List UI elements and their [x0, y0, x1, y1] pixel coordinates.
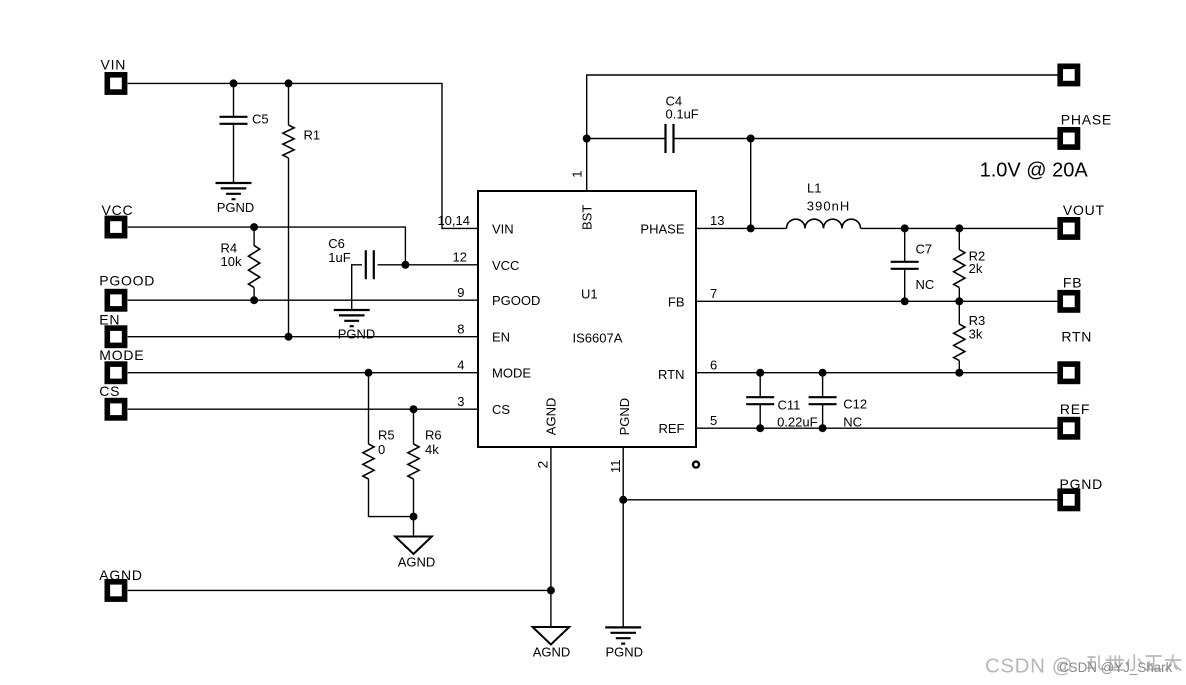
port CS: [99, 383, 124, 418]
svg-text:PGND: PGND: [338, 327, 376, 342]
junction VCC/R4: [250, 223, 258, 231]
junction REF/C11: [756, 424, 764, 432]
watermark CSDN small: [1059, 660, 1173, 675]
port PGOOD: [99, 273, 155, 309]
junction R1/EN: [285, 333, 293, 341]
svg-text:9: 9: [457, 285, 464, 300]
junction VOUT/R2: [955, 224, 963, 232]
junction RTN/C12: [819, 369, 827, 377]
resistor R6: [408, 409, 442, 536]
svg-text:L1: L1: [807, 180, 821, 195]
junction VIN/R1: [285, 79, 293, 87]
wire VIN net: [128, 83, 478, 228]
svg-text:REF: REF: [659, 421, 685, 436]
resistor R2: [954, 228, 986, 301]
svg-text:3: 3: [457, 394, 464, 409]
pin number 6: [710, 358, 717, 373]
svg-text:VIN: VIN: [492, 221, 514, 236]
svg-text:C6: C6: [328, 236, 345, 251]
wire FB net: [696, 300, 1057, 302]
svg-text:4: 4: [457, 358, 464, 373]
wire VCC net: [128, 227, 478, 265]
pin number 13: [710, 213, 724, 228]
port PHASE: [1060, 111, 1112, 147]
capacitor C5: [220, 83, 269, 183]
pin number 10,14: [437, 213, 470, 228]
svg-text:MODE: MODE: [99, 347, 144, 363]
svg-text:AGND: AGND: [544, 398, 559, 436]
svg-text:7: 7: [710, 286, 717, 301]
wire PHASE riser: [750, 139, 752, 229]
svg-text:PGND: PGND: [617, 398, 632, 436]
wire BST net: [587, 75, 1058, 191]
port MODE: [99, 347, 144, 381]
svg-text:PHASE: PHASE: [640, 221, 684, 236]
capacitor C11: [746, 373, 817, 430]
svg-text:R1: R1: [304, 128, 321, 143]
svg-text:AGND: AGND: [398, 555, 436, 570]
junction FB/R2/R3: [955, 297, 963, 305]
node marker o: [693, 462, 699, 468]
port REF: [1060, 401, 1090, 437]
svg-text:VCC: VCC: [102, 202, 134, 218]
svg-text:PHASE: PHASE: [1061, 111, 1112, 127]
capacitor C6: [328, 236, 405, 310]
wire PGOOD net: [128, 299, 478, 301]
resistor R1: [283, 83, 320, 336]
svg-text:C7: C7: [916, 242, 933, 257]
resistor R4: [221, 227, 260, 300]
svg-text:CS: CS: [492, 402, 510, 417]
pin number 2: [535, 461, 551, 469]
port VOUT: [1060, 202, 1105, 237]
svg-text:12: 12: [453, 250, 467, 265]
svg-text:390nH: 390nH: [807, 198, 851, 213]
svg-text:0: 0: [378, 442, 385, 457]
junction RTN/R3: [955, 369, 963, 377]
svg-text:IS6607A: IS6607A: [573, 331, 623, 346]
port PGND: [1060, 476, 1103, 509]
wire RTN net: [696, 372, 1057, 374]
ground PGND below pin 11: [605, 627, 643, 659]
pin number 12: [453, 250, 467, 265]
svg-text:VCC: VCC: [492, 258, 519, 273]
resistor R3: [954, 301, 986, 372]
resistor R5: [363, 373, 414, 517]
svg-text:11: 11: [608, 460, 623, 474]
svg-text:PGOOD: PGOOD: [99, 273, 155, 289]
inductor L1: [787, 180, 861, 228]
pin number 7: [710, 286, 717, 301]
wire VOUT net: [861, 227, 1058, 229]
ground PGND below C5: [216, 183, 255, 215]
svg-text:CS: CS: [99, 383, 120, 399]
port AGND: [99, 567, 142, 599]
capacitor C4: [587, 94, 699, 154]
svg-text:C5: C5: [252, 112, 269, 127]
svg-text:U1: U1: [581, 287, 598, 302]
svg-text:AGND: AGND: [533, 645, 571, 660]
junction PHASE/riser: [747, 224, 755, 232]
svg-text:RTN: RTN: [1061, 328, 1092, 344]
wire REF net: [696, 427, 1057, 429]
wire C4 to PHASE port: [674, 138, 1058, 140]
pin number 1: [570, 171, 585, 178]
junction RTN/C11: [756, 369, 764, 377]
ground PGND below C6: [334, 310, 376, 342]
junction CS/R6: [410, 405, 418, 413]
pin number 8: [457, 322, 464, 337]
wire pin 11 PGND: [622, 447, 624, 627]
wire pin 2 AGND: [550, 447, 552, 627]
wire CS net: [128, 408, 478, 410]
svg-text:EN: EN: [99, 312, 120, 328]
watermark CSDN large: [985, 655, 1181, 678]
junction pin 11/PGND net: [619, 496, 627, 504]
svg-text:8: 8: [457, 322, 464, 337]
svg-text:FB: FB: [1063, 274, 1082, 290]
junction R4/PGOOD: [250, 296, 258, 304]
junction R5/R6: [410, 513, 418, 521]
junction MODE/R5: [365, 369, 373, 377]
svg-text:2: 2: [535, 461, 551, 469]
svg-text:3k: 3k: [969, 326, 983, 341]
svg-text:PGND: PGND: [606, 645, 644, 660]
pin number 11: [608, 460, 623, 474]
svg-text:NC: NC: [916, 277, 935, 292]
port RTN: [1060, 328, 1092, 381]
svg-text:6: 6: [710, 358, 717, 373]
op-amp U1 IS6607A buck controller: [478, 191, 696, 447]
svg-text:0.1uF: 0.1uF: [666, 107, 699, 122]
text output rating: [980, 159, 1089, 181]
svg-text:MODE: MODE: [492, 366, 531, 381]
junction FB/C7: [901, 297, 909, 305]
svg-text:NC: NC: [843, 414, 862, 429]
svg-text:FB: FB: [668, 294, 685, 309]
svg-text:PGND: PGND: [217, 200, 255, 215]
svg-text:10k: 10k: [221, 254, 242, 269]
port VCC: [102, 202, 134, 236]
capacitor C7: [891, 228, 935, 301]
pin number 4: [457, 358, 464, 373]
svg-text:4k: 4k: [425, 442, 439, 457]
port FB: [1060, 274, 1082, 310]
pin number 9: [457, 285, 464, 300]
svg-text:R6: R6: [425, 427, 442, 442]
wire PHASE pin 13: [696, 227, 787, 229]
pin number 5: [710, 413, 717, 428]
wire MODE net: [128, 372, 478, 374]
pin number 3: [457, 394, 464, 409]
ground AGND below R6: [395, 537, 435, 570]
svg-text:RTN: RTN: [658, 367, 684, 382]
svg-text:10,14: 10,14: [437, 213, 470, 228]
svg-text:C11: C11: [778, 398, 801, 413]
port EN: [99, 312, 124, 346]
ground AGND below pin 2: [533, 627, 571, 660]
svg-text:5: 5: [710, 413, 717, 428]
svg-text:VOUT: VOUT: [1063, 202, 1105, 218]
svg-text:PGND: PGND: [1060, 476, 1103, 492]
port BST top right: [1060, 66, 1077, 83]
svg-text:R5: R5: [378, 427, 395, 442]
junction BST/C4: [583, 135, 591, 143]
svg-text:REF: REF: [1060, 401, 1090, 417]
svg-text:PGOOD: PGOOD: [492, 293, 540, 308]
junction AGND/pin 2: [547, 586, 555, 594]
svg-text:2k: 2k: [969, 261, 983, 276]
svg-text:EN: EN: [492, 330, 510, 345]
svg-text:CSDN @YJ_Shark: CSDN @YJ_Shark: [1059, 660, 1173, 675]
svg-text:1: 1: [570, 171, 585, 178]
svg-text:1.0V @ 20A: 1.0V @ 20A: [980, 159, 1089, 181]
junction REF/C12: [819, 424, 827, 432]
junction C6/VCC pin 12: [401, 261, 409, 269]
wire AGND net: [128, 589, 551, 591]
svg-text:AGND: AGND: [99, 567, 142, 583]
port VIN: [101, 57, 127, 92]
svg-text:VIN: VIN: [101, 57, 127, 73]
junction VIN/C5: [230, 79, 238, 87]
svg-text:C12: C12: [843, 397, 867, 412]
junction C4/PHASE riser: [747, 135, 755, 143]
wire EN net: [128, 336, 478, 338]
svg-text:13: 13: [710, 213, 724, 228]
svg-text:0.22uF: 0.22uF: [777, 414, 818, 429]
svg-text:BST: BST: [580, 205, 595, 230]
svg-text:1uF: 1uF: [328, 250, 350, 265]
junction VOUT/C7: [901, 224, 909, 232]
capacitor C12: [809, 373, 868, 430]
wire PGND net: [623, 499, 1057, 501]
